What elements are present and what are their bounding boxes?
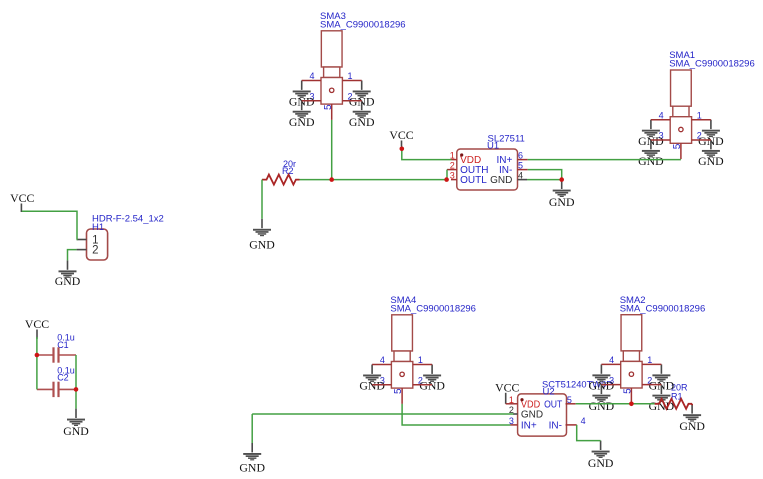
ground (SMA4 pin4) <box>359 365 385 393</box>
U2 pins <box>506 403 518 405</box>
net VCC (caps) <box>25 317 49 339</box>
svg-text:GND: GND <box>289 115 315 129</box>
svg-text:4: 4 <box>581 416 586 426</box>
wire right side C1 to C2 to GND <box>75 355 77 409</box>
svg-text:SMA_C9900018296: SMA_C9900018296 <box>669 59 755 70</box>
net VCC (header) <box>10 191 34 212</box>
net VCC (U1) <box>389 128 413 147</box>
SMA1 body <box>670 70 691 143</box>
svg-text:SMA_C9900018296: SMA_C9900018296 <box>620 303 706 314</box>
ground (C2) <box>63 409 89 439</box>
U2 pin2 (GND) stub <box>513 413 518 415</box>
junction <box>329 177 334 182</box>
wire VCC rail left of C1/C2 <box>36 337 38 389</box>
net VCC (U2) <box>495 380 519 404</box>
svg-text:GND: GND <box>359 379 385 393</box>
svg-text:GND: GND <box>549 195 575 209</box>
svg-text:2: 2 <box>92 245 98 257</box>
svg-text:C2: C2 <box>57 372 69 382</box>
wire U1 GND pin to node <box>527 179 562 181</box>
junction <box>74 387 79 392</box>
svg-text:VCC: VCC <box>495 380 519 394</box>
svg-text:GND: GND <box>349 115 375 129</box>
SMA1 pins <box>651 120 711 159</box>
wire VCC to U1 pin1 <box>402 147 452 160</box>
ground (SMA2 pin1) <box>649 364 675 392</box>
svg-text:GND: GND <box>638 154 664 168</box>
svg-text:GND: GND <box>589 399 615 413</box>
junction <box>559 177 564 182</box>
svg-text:GND: GND <box>239 461 265 475</box>
svg-text:1: 1 <box>418 355 423 365</box>
ground (SMA1 pin3) <box>638 140 664 168</box>
svg-text:1: 1 <box>647 355 652 365</box>
svg-text:GND: GND <box>521 410 543 421</box>
svg-text:VCC: VCC <box>25 317 49 331</box>
ground (SMA3 pin4) <box>289 81 315 109</box>
ground (SMA1 pin1) <box>698 120 724 148</box>
svg-text:H1: H1 <box>92 222 104 233</box>
ground (SMA3 pin3) <box>289 101 315 129</box>
ground (U2 pin2) <box>239 443 265 475</box>
ground (SMA1 pin4) <box>638 120 664 148</box>
wire R2 left to GND <box>261 180 263 219</box>
svg-text:4: 4 <box>380 355 385 365</box>
svg-text:GND: GND <box>588 456 614 470</box>
connector SMA4 SMA_C9900018296 <box>380 295 476 394</box>
SMA4 body <box>391 315 412 388</box>
resistor R1 20R <box>655 399 693 409</box>
wire R2 to U1 pin3 node <box>300 179 447 181</box>
junction <box>400 147 405 152</box>
svg-text:GND: GND <box>419 379 445 393</box>
wire H1 pin2 stub <box>77 249 87 251</box>
junction <box>444 177 449 182</box>
wire U1 IN- down <box>528 170 562 180</box>
svg-text:SMA_C9900018296: SMA_C9900018296 <box>390 304 476 315</box>
ground (SMA3 pin1) <box>349 81 375 109</box>
capacitor C2 0.1u <box>37 382 76 397</box>
svg-text:IN-: IN- <box>549 420 562 431</box>
wire SMA3 pin5 down to node <box>331 120 333 180</box>
ground (R2) <box>249 219 275 252</box>
svg-text:GND: GND <box>698 154 724 168</box>
wire U1 pin2 to pin3 tie <box>446 170 448 180</box>
SMA2 pins <box>601 364 661 403</box>
U2 pin1 marker dot <box>520 398 523 401</box>
connector SMA2 SMA_C9900018296 <box>609 295 705 394</box>
svg-text:4: 4 <box>309 71 314 81</box>
svg-text:GND: GND <box>55 274 81 288</box>
svg-text:GND: GND <box>490 175 512 186</box>
U1 pin4 (GND) stub <box>518 179 528 181</box>
SMA4 pins <box>372 365 432 404</box>
svg-text:VCC: VCC <box>389 128 413 142</box>
ground (SMA2 pin2) <box>649 385 675 413</box>
svg-text:GND: GND <box>679 419 705 433</box>
junction <box>629 402 634 407</box>
svg-text:1: 1 <box>348 71 353 81</box>
svg-text:OUT: OUT <box>544 399 562 410</box>
wire U2 OUT to SMA2/R1 <box>576 403 655 405</box>
svg-text:4: 4 <box>609 355 614 365</box>
svg-text:1: 1 <box>697 110 702 120</box>
svg-text:SMA_C9900018296: SMA_C9900018296 <box>320 20 406 31</box>
svg-text:U1: U1 <box>487 141 499 152</box>
ground (SMA3 pin2) <box>349 101 375 129</box>
svg-text:VCC: VCC <box>10 191 34 205</box>
header H1 HDR-F-2.54_1x2 <box>87 229 108 260</box>
ground (SMA1 pin2) <box>698 140 724 168</box>
wire U1 IN+ to SMA1 pin5 <box>528 159 681 161</box>
ground (U2 pin4) <box>588 441 614 470</box>
ground (SMA4 pin1) <box>419 365 445 393</box>
R1 right lead corner <box>691 404 693 405</box>
ground (H1 pin2) <box>55 260 81 287</box>
wire down to GND left <box>251 414 253 443</box>
svg-text:OUTL: OUTL <box>460 175 487 186</box>
ground (SMA2 pin4) <box>589 364 615 392</box>
connector SMA1 SMA_C9900018296 <box>659 50 755 149</box>
ground (U1) <box>549 180 575 209</box>
U1 pin1 marker dot <box>460 153 463 156</box>
junction <box>35 353 40 358</box>
svg-text:U2: U2 <box>543 386 555 397</box>
svg-text:4: 4 <box>659 110 664 120</box>
connector SMA3 SMA_C9900018296 <box>309 11 405 110</box>
wire SMA4 pin5 to U2 IN+ <box>402 404 510 425</box>
wire H1 pin2 to GND <box>68 250 77 261</box>
svg-text:GND: GND <box>249 238 275 252</box>
wire VCC to H1 pin1 <box>22 211 77 239</box>
SMA3 pins <box>302 81 362 120</box>
wire U2 IN- to GND <box>577 425 601 441</box>
SMA3 body <box>321 31 342 104</box>
capacitor C1 0.1u <box>37 347 76 362</box>
U1 pins <box>452 159 457 161</box>
SMA2 body <box>621 315 642 388</box>
op-amp U1 SL27511 box <box>457 149 518 190</box>
svg-text:IN+: IN+ <box>521 420 537 431</box>
wire U2 GND pin left <box>252 413 513 415</box>
op-amp U2 SCT51240 box <box>518 394 567 436</box>
resistor R2 20r <box>262 175 300 185</box>
ground (R1) <box>679 404 705 433</box>
ground (SMA2 pin3) <box>589 385 615 413</box>
svg-text:GND: GND <box>63 424 89 438</box>
wire H1 pin1 stub <box>77 239 87 241</box>
